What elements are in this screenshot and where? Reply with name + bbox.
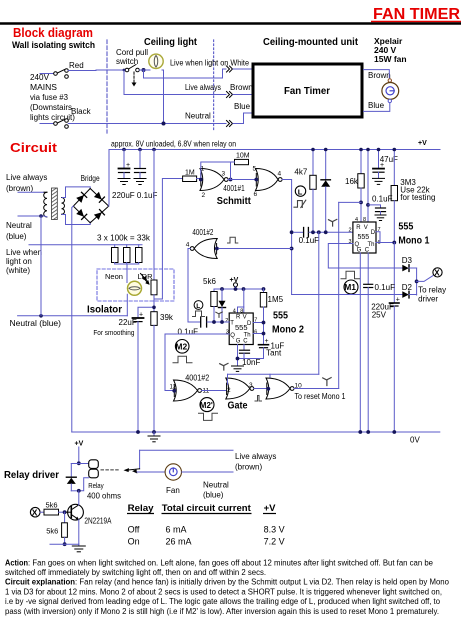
svg-text:To reset Mono 1: To reset Mono 1	[295, 392, 346, 401]
wire live always brown	[124, 70, 226, 95]
wire neutral to transformer	[18, 215, 44, 217]
node rail 220uF	[122, 148, 126, 152]
IC 555 Mono 1	[349, 217, 381, 254]
waveform L node glyph	[294, 186, 306, 208]
svg-text:Mono 1: Mono 1	[398, 235, 429, 247]
node relay top	[77, 461, 81, 465]
node bus 1M5	[262, 287, 266, 291]
svg-text:5k6: 5k6	[46, 501, 58, 510]
op-amp gate 4001#4	[266, 378, 302, 399]
svg-text:FAN TIMER: FAN TIMER	[373, 6, 460, 23]
wire live always relay	[140, 449, 233, 451]
svg-text:1M: 1M	[185, 170, 195, 177]
label Live always Brown	[185, 83, 253, 92]
node L gate tap	[290, 247, 294, 251]
svg-text:3: 3	[226, 330, 229, 336]
node neutral drop junction	[39, 314, 43, 318]
wire gates top feed	[228, 374, 319, 386]
capacitor 0.1uF trigger	[294, 228, 353, 246]
resistor 39k	[151, 312, 174, 432]
wire switch to lamp	[139, 69, 150, 71]
svg-text:+V: +V	[75, 441, 84, 448]
connector chevron brown	[227, 92, 233, 98]
node Th timing	[392, 241, 396, 245]
label Xpelair 240 V 15W fan	[374, 36, 407, 64]
table header +V	[263, 503, 276, 514]
table header Relay	[127, 503, 154, 514]
wire gate3 to gate4	[254, 388, 267, 390]
node bus vpin	[242, 287, 246, 291]
diode D2	[402, 283, 417, 298]
ground mono2	[232, 366, 244, 371]
capacitor 22uF smoothing	[133, 307, 155, 432]
wire bus to V pin	[238, 289, 244, 313]
svg-text:Block diagram: Block diagram	[13, 25, 93, 40]
resistor 5k6 pullup	[211, 289, 217, 322]
wire black lead	[40, 123, 54, 125]
terminal X input	[30, 507, 40, 517]
ground 0.1uF rail	[134, 179, 146, 185]
table header Total circuit current	[162, 503, 252, 514]
svg-text:10M: 10M	[236, 153, 250, 160]
svg-text:Action: Action	[5, 559, 28, 568]
relay coil RLA	[79, 460, 98, 491]
label Live when light on White	[170, 59, 249, 68]
svg-text:Q: Q	[230, 333, 235, 339]
node rail 16k	[359, 148, 363, 152]
diode flyback	[66, 464, 78, 491]
wire mono2 Q to gate	[165, 334, 229, 391]
svg-text:0.1uF: 0.1uF	[372, 195, 393, 204]
svg-text:M2: M2	[175, 341, 187, 351]
top rule	[0, 22, 461, 24]
svg-text:pass (with inversion) only if: pass (with inversion) only if Mono 2 is …	[5, 607, 439, 616]
svg-text:For smoothing: For smoothing	[93, 328, 134, 337]
waveform spike reset	[323, 378, 331, 386]
waveform spike above diode	[216, 312, 223, 317]
label Gate	[228, 400, 248, 412]
svg-text:Ceiling light: Ceiling light	[144, 36, 197, 48]
svg-text:400 ohms: 400 ohms	[87, 491, 121, 501]
wire live brown to transformer	[18, 191, 44, 193]
wire resistor bottom bus	[115, 263, 139, 265]
label Relay 400 ohms	[87, 483, 121, 501]
svg-text:X: X	[32, 508, 38, 518]
svg-text:+V: +V	[264, 503, 277, 514]
node trigger diode mono2	[220, 320, 224, 324]
rail 0V bottom	[72, 432, 440, 445]
resistor 100k b	[124, 248, 131, 263]
terminal +V mono2	[230, 277, 239, 289]
title FAN TIMER	[371, 6, 461, 23]
SECTION: mono2 gates	[72, 228, 440, 445]
wire D pin tie	[376, 232, 380, 243]
svg-text:T: T	[230, 321, 234, 327]
svg-text:4: 4	[355, 217, 358, 223]
rail +V top	[109, 140, 440, 150]
svg-text:i.e by -ve signal derived from: i.e by -ve signal derived from leading e…	[5, 597, 441, 606]
svg-text:(Downstairs: (Downstairs	[30, 103, 72, 112]
node gate4 input	[266, 387, 270, 391]
label Brown fan side	[368, 71, 391, 80]
wire contact to fan	[137, 471, 165, 473]
wire lamp to neutral drop	[162, 70, 164, 124]
label Schmitt	[217, 195, 251, 207]
svg-text:Schmitt: Schmitt	[217, 195, 251, 207]
svg-text:4k7: 4k7	[294, 168, 307, 177]
svg-text:C: C	[243, 339, 248, 345]
resistor 5k6 pulldown	[46, 512, 67, 544]
node gate2 input	[254, 178, 258, 182]
capacitor 0.1uF rail	[135, 150, 146, 179]
label Live always (brown)	[6, 173, 47, 193]
node rail 3M3	[393, 148, 397, 152]
svg-text:R: R	[236, 314, 241, 320]
svg-text:555: 555	[398, 221, 413, 233]
svg-text:Live when light on White: Live when light on White	[170, 59, 249, 68]
svg-text:On: On	[128, 537, 140, 547]
capacitor 220uF timing	[371, 243, 400, 433]
svg-text:6: 6	[254, 191, 258, 198]
label 4001#2 upper	[192, 228, 213, 237]
wire bridge minus to 0V	[72, 206, 74, 432]
svg-text:Neutral: Neutral	[185, 112, 211, 121]
fan motor symbol	[382, 79, 399, 103]
node rail Vpin	[366, 148, 370, 152]
svg-text:1 via D3 for about 12 mins. Mo: 1 via D3 for about 12 mins. Mono 2 of ab…	[5, 588, 442, 597]
capacitor 0.1uF mono2 trigger	[178, 317, 230, 337]
svg-text:Bridge: Bridge	[81, 174, 100, 183]
capacitor 0.1uF decoupling mono1	[368, 195, 393, 215]
svg-text:6: 6	[254, 330, 257, 336]
svg-text:Live always: Live always	[185, 83, 221, 92]
svg-text:R: R	[356, 225, 361, 231]
node trigger gate branch	[317, 230, 321, 234]
node trigger diode	[324, 230, 328, 234]
label Neutral (blue) upper	[6, 221, 32, 241]
neon lamp	[128, 281, 142, 295]
mechanical link dashed	[101, 469, 120, 471]
light coupling arrows	[141, 274, 149, 285]
svg-text:Fan Timer: Fan Timer	[284, 85, 330, 97]
ground transistor	[72, 544, 85, 552]
wire neon to neutral	[126, 294, 128, 316]
svg-text:8: 8	[363, 217, 366, 223]
svg-text:555: 555	[273, 310, 288, 322]
svg-text:Brown: Brown	[368, 71, 391, 80]
SECTION: table and text	[5, 503, 450, 616]
heading Circuit	[10, 140, 58, 155]
node emitter resistor tie	[63, 542, 67, 546]
node gate 4001#2a input	[215, 247, 219, 251]
wire D pin tie mono2	[253, 322, 263, 324]
svg-text:Fan: Fan	[166, 486, 180, 495]
label Live always (brown) bottom	[235, 452, 276, 472]
label Isolator	[87, 304, 122, 316]
svg-text:8: 8	[240, 308, 243, 314]
node relay drive	[415, 280, 419, 284]
diode D3	[402, 256, 417, 271]
svg-text:8.3 V: 8.3 V	[264, 525, 285, 535]
label 3 x 100k = 33k	[97, 233, 151, 243]
svg-text:G: G	[236, 339, 241, 345]
svg-text:L: L	[196, 303, 200, 310]
svg-text:Relay: Relay	[128, 503, 155, 514]
svg-text:2: 2	[202, 192, 206, 199]
node rail LDR feed	[152, 148, 156, 152]
svg-text:V: V	[243, 314, 247, 320]
svg-text:4: 4	[278, 171, 282, 178]
label LDR	[138, 272, 154, 281]
wire reset to R pin	[339, 201, 361, 203]
node trigger 5k6	[212, 320, 216, 324]
resistor 10M feedback	[201, 153, 250, 180]
svg-text:3: 3	[349, 239, 352, 245]
diode clamp to +V	[321, 150, 330, 233]
label 555 Mono 1	[398, 221, 429, 247]
svg-text:5k6: 5k6	[203, 277, 216, 286]
svg-text:0.1uF: 0.1uF	[375, 283, 396, 292]
switch wall black pole	[54, 119, 69, 129]
svg-text:To relay: To relay	[418, 286, 446, 295]
svg-text:22uF: 22uF	[119, 318, 137, 327]
transformer T1	[44, 188, 65, 220]
svg-text:3 x 100k = 33k: 3 x 100k = 33k	[97, 233, 151, 243]
svg-text:240V: 240V	[30, 73, 50, 82]
node L trigger tap	[290, 230, 294, 234]
IC 555 Mono 2	[225, 308, 257, 344]
paragraph circuit explanation	[5, 578, 450, 617]
svg-text:3: 3	[249, 382, 253, 389]
svg-text:driver: driver	[418, 295, 438, 304]
svg-text:2: 2	[349, 228, 352, 234]
svg-text:Neon: Neon	[105, 272, 123, 281]
svg-text:+V: +V	[418, 140, 427, 147]
SECTION: relay driver	[4, 441, 276, 552]
wire ground bus small	[50, 543, 79, 545]
svg-text:X: X	[434, 269, 440, 278]
wire bus to neon	[126, 264, 128, 283]
node rail 47uF	[377, 148, 381, 152]
wire mono2 top bus	[214, 288, 264, 290]
svg-text:+: +	[265, 338, 269, 345]
LDR photoresistor	[151, 150, 157, 312]
svg-text:1M5: 1M5	[268, 295, 284, 304]
resistor 1M5	[260, 289, 283, 344]
waveform M1 glyph	[341, 271, 360, 294]
node switched-live junction	[142, 68, 146, 72]
svg-text:D: D	[371, 230, 376, 236]
label 220uF 0.1uF	[112, 191, 157, 200]
label For smoothing	[93, 328, 134, 337]
label 22uF	[119, 318, 137, 327]
terminal X to relay driver	[417, 268, 443, 282]
wire neutral into unit	[233, 113, 252, 124]
svg-text:3: 3	[222, 171, 226, 178]
wire brown to fan	[364, 70, 390, 79]
svg-text:L: L	[298, 187, 303, 196]
box isolator dashed	[97, 269, 174, 301]
svg-text:4001#1: 4001#1	[223, 184, 245, 193]
svg-text:2: 2	[225, 318, 228, 324]
resistor 16k	[345, 150, 364, 223]
diode mono2 clamp	[219, 289, 226, 322]
wire white into unit	[233, 68, 252, 70]
waveform L glyph mono2	[193, 301, 205, 317]
heading Block diagram	[13, 25, 93, 40]
svg-text:10nF: 10nF	[242, 358, 260, 367]
wire white	[144, 69, 227, 78]
svg-text:4001#2: 4001#2	[185, 374, 209, 383]
label 4001#1	[223, 184, 245, 193]
label Neutral	[185, 112, 211, 121]
ground 47uF	[373, 178, 385, 184]
node trigger 4k7	[311, 230, 315, 234]
section divider dashed left	[106, 40, 108, 133]
svg-text:Red: Red	[69, 61, 84, 70]
wire white feed	[29, 244, 142, 246]
wire neutral lower	[18, 315, 128, 317]
SECTION: block diagram	[12, 36, 407, 133]
wire collector	[78, 491, 80, 505]
capacitor 1uF Tant	[238, 338, 285, 359]
wire gate11 to gate2	[202, 390, 226, 392]
svg-text:25V: 25V	[372, 311, 387, 320]
svg-text:light on: light on	[6, 257, 32, 266]
paragraph action	[5, 559, 434, 578]
svg-text:switched off immediately by sw: switched off immediately by switching li…	[5, 568, 266, 577]
relay contact arm	[124, 450, 140, 473]
svg-text:D2: D2	[402, 283, 413, 292]
svg-text:D3: D3	[402, 256, 413, 265]
wire fan to neutral	[182, 471, 233, 473]
svg-text:V: V	[364, 225, 368, 231]
svg-text:0.1uF: 0.1uF	[178, 328, 199, 337]
svg-text:Isolator: Isolator	[87, 304, 122, 316]
capacitor 47uF	[373, 150, 398, 178]
switch cord pull	[125, 65, 139, 72]
svg-text:Wall isolating switch: Wall isolating switch	[12, 40, 95, 50]
connector chevron neutral	[227, 121, 233, 127]
wire emitter to ground	[78, 520, 80, 545]
SECTION: schmitt and mono1	[183, 148, 447, 432]
svg-text:Th: Th	[244, 332, 251, 338]
node gate1 output	[229, 178, 233, 182]
svg-text:M2': M2'	[200, 401, 213, 410]
label Blue	[234, 102, 251, 111]
svg-text:2N2219A: 2N2219A	[84, 517, 112, 526]
waveform trigger spike glyph	[329, 219, 337, 226]
resistor 4k7	[294, 150, 316, 233]
node rail 220uF	[392, 430, 396, 434]
wire gate1 to gate2	[228, 179, 255, 181]
label Relay driver	[4, 470, 59, 481]
svg-text:(blue): (blue)	[203, 491, 224, 500]
box Fan Timer unit	[253, 64, 362, 117]
node rail 39k	[152, 430, 156, 434]
node base junction	[63, 510, 67, 514]
ground main rail	[148, 432, 160, 442]
wire neutral	[68, 123, 226, 125]
table row On	[128, 537, 285, 547]
svg-text:Ceiling-mounted unit: Ceiling-mounted unit	[263, 36, 358, 48]
svg-text:0V: 0V	[410, 436, 420, 445]
svg-text:C: C	[365, 248, 370, 254]
svg-text:5k6: 5k6	[46, 527, 58, 536]
wire LDR tap to schmitt	[154, 179, 183, 300]
ground 220uF	[118, 179, 130, 185]
label 4001#2 lower	[185, 374, 209, 383]
node neutral transformer tap	[39, 214, 43, 218]
svg-text:Total circuit current: Total circuit current	[162, 503, 252, 514]
wire mono1 Q output	[328, 244, 402, 269]
svg-text:M1: M1	[344, 282, 356, 292]
waveform M2 glyph	[173, 340, 192, 363]
svg-text:Relay: Relay	[88, 483, 104, 490]
wire secondary to bridge bottom	[62, 215, 90, 225]
label 3M3 Use 22k for testing	[400, 178, 435, 202]
node gate 4001#2b input	[172, 389, 176, 393]
label Red	[69, 61, 84, 70]
svg-text:2: 2	[227, 387, 231, 394]
svg-text:Gate: Gate	[228, 400, 248, 412]
svg-text:: Fan goes on when light switc: : Fan goes on when light switched on. Le…	[28, 559, 434, 568]
op-amp gate 4001#3	[226, 378, 254, 399]
svg-text:Circuit: Circuit	[10, 140, 58, 155]
waveform rising pulse glyph	[228, 237, 238, 243]
svg-text:Black: Black	[71, 107, 92, 116]
node bus diode	[220, 287, 224, 291]
svg-text:Off: Off	[128, 525, 140, 535]
wire Th tie mono2	[253, 333, 263, 335]
node D tie	[262, 321, 266, 325]
label 5k6 mono2	[203, 277, 216, 286]
label To relay driver	[418, 286, 446, 304]
op-amp gate 4001#2b	[170, 380, 210, 401]
svg-text:Blue: Blue	[368, 101, 385, 110]
svg-text:via fuse #3: via fuse #3	[30, 93, 69, 102]
node rail mono1 C	[366, 430, 370, 434]
svg-text:0.1uF: 0.1uF	[299, 236, 320, 245]
wire blue from fan	[364, 103, 390, 112]
resistor 100k c	[136, 248, 143, 263]
svg-text:4: 4	[233, 308, 236, 314]
resistor 3M3	[391, 150, 397, 243]
note approx voltage	[111, 140, 236, 149]
svg-text:39k: 39k	[160, 313, 174, 322]
svg-text:Circuit explanation: Circuit explanation	[5, 578, 75, 587]
wire reset riser	[338, 202, 340, 388]
node live-always tap	[123, 69, 126, 72]
label Neutral (blue) bottom	[203, 481, 229, 500]
node decoupling tap	[366, 203, 370, 207]
wire red lead	[40, 73, 54, 75]
label Black	[71, 107, 92, 116]
svg-text:15W fan: 15W fan	[374, 54, 407, 64]
node rail 0.1uF	[138, 148, 142, 152]
label Live when light on (white)	[6, 248, 42, 275]
svg-text:4: 4	[186, 242, 190, 249]
wire trigger to gates	[318, 232, 320, 374]
svg-text:Blue: Blue	[234, 102, 251, 111]
svg-text:Live always: Live always	[6, 173, 47, 182]
svg-text:(brown): (brown)	[235, 463, 262, 472]
pull cord dashed with arrow	[132, 72, 137, 87]
SECTION: circuit left	[6, 140, 440, 433]
op-amp gate 4001#2a mirrored	[186, 239, 217, 259]
switch wall red pole	[54, 69, 69, 79]
svg-text:approx. 8V unloaded, 6.8V when: approx. 8V unloaded, 6.8V when relay on	[111, 140, 236, 149]
